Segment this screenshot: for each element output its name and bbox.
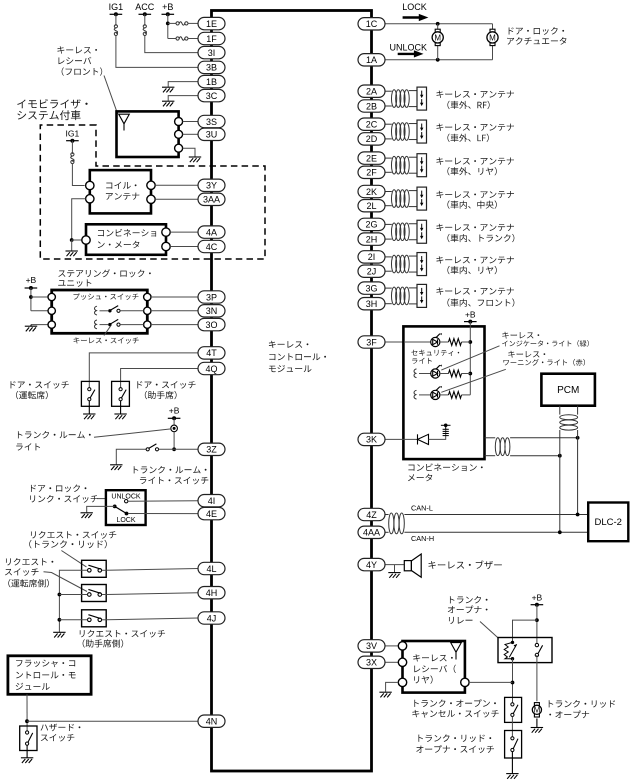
label combination meter L line2 — [98, 241, 140, 249]
label immobilizer line2 — [17, 110, 80, 120]
svg-text:4J: 4J — [207, 613, 217, 623]
connector pin 3P — [198, 291, 225, 303]
wire to terminal 1 — [31, 296, 48, 298]
connector pin 3H — [358, 298, 385, 310]
fuse IG1 — [114, 25, 117, 36]
junction motor1 top — [436, 22, 440, 26]
wire to security LED — [404, 341, 431, 343]
hazard switch box — [20, 726, 37, 751]
request switch contact 1 — [88, 565, 102, 572]
junction meter/PCM CAN-H — [558, 454, 562, 458]
trunk lid opener motor — [532, 703, 541, 717]
connector pin 4AA — [358, 526, 385, 538]
hook row2 — [95, 306, 97, 315]
resistor warning — [449, 392, 462, 399]
connector pin 2B — [358, 100, 385, 112]
wire hook to switch row3 — [100, 324, 109, 326]
wire to switch 2 — [59, 594, 87, 596]
wire to indicator LED — [419, 373, 431, 375]
wire motor1 branch — [437, 24, 439, 60]
leader warning light — [441, 369, 506, 392]
wire to fuse 1E — [168, 22, 176, 24]
connector pin 2J — [358, 265, 385, 277]
svg-text:4T: 4T — [206, 348, 217, 358]
ground buzzer — [388, 573, 400, 578]
steering terminal right 1 — [144, 293, 151, 300]
keyless antenna RF — [385, 87, 427, 110]
fuse IG1 immobilizer — [71, 153, 74, 164]
steering terminal left 3 — [48, 321, 55, 328]
wire to warning LED — [419, 394, 431, 396]
twisted pair from meter — [485, 438, 578, 456]
meter coil symbol — [441, 424, 451, 436]
connector pin 4I — [198, 495, 225, 507]
wire switch row2 to terminal — [120, 310, 144, 312]
fuse to 1F — [176, 37, 188, 40]
receiver rear terminal 1 — [398, 642, 406, 650]
wire pin 3K to diode — [385, 438, 418, 440]
svg-text:+B: +B — [26, 275, 37, 285]
label hazard switch line1 — [41, 724, 81, 732]
svg-text:4Y: 4Y — [366, 560, 377, 570]
label cancel switch line2 — [412, 710, 498, 718]
wire IG1 down to fuse — [115, 14, 117, 25]
wire +B to bulb — [173, 418, 175, 425]
svg-text:DLC-2: DLC-2 — [594, 517, 621, 528]
stem buzzer ground — [394, 565, 396, 573]
label antenna LF line2 — [447, 134, 488, 142]
keyless switch row3 — [108, 319, 120, 326]
wire pin 3F to meter — [385, 341, 404, 343]
connector pin 1B — [198, 75, 225, 87]
svg-text:2F: 2F — [366, 168, 377, 178]
connector pin 2A — [358, 85, 385, 97]
ground 1B — [162, 87, 174, 92]
connector pin 4C — [198, 240, 225, 252]
connector pin 3F — [358, 336, 385, 348]
svg-text:3S: 3S — [206, 117, 217, 127]
label keyless buzzer — [429, 560, 502, 569]
connector pin 3S — [198, 115, 225, 127]
svg-text:LOCK: LOCK — [402, 2, 427, 12]
label door switch driver line1 — [11, 381, 69, 389]
wire inside switch 1 — [102, 569, 106, 571]
wire pin 1B to ground — [168, 82, 198, 87]
connector pin 3O — [198, 318, 225, 330]
wire to terminal 2 — [31, 310, 48, 312]
svg-text:3C: 3C — [206, 91, 218, 101]
ACC terminal — [139, 12, 152, 16]
svg-text:2K: 2K — [366, 187, 377, 197]
connector pin 3Z — [198, 443, 225, 455]
keyless antenna rear-in — [385, 253, 427, 276]
connector pin 2E — [358, 152, 385, 164]
svg-text:2E: 2E — [366, 153, 377, 163]
label door lock actuator line2 — [507, 37, 566, 45]
label keyless receiver front line3 — [62, 67, 103, 75]
wire diode to coil — [429, 429, 446, 440]
connector pin 1E — [198, 17, 225, 29]
svg-text:3H: 3H — [366, 299, 378, 309]
keyless buzzer speaker — [404, 554, 421, 577]
wire ACC down to fuse — [144, 14, 146, 25]
door switch driver box — [81, 381, 99, 406]
junction rung1 — [468, 340, 472, 344]
wire motor2 branch — [492, 24, 494, 60]
trunk room light bulb — [171, 425, 178, 432]
wire +B into meter — [469, 322, 471, 395]
svg-text:M: M — [489, 33, 496, 42]
label module line2 — [269, 353, 326, 360]
label keyless receiver front line2 — [58, 57, 91, 64]
relay coil — [504, 641, 517, 661]
wire pin 3V to receiver — [385, 645, 398, 647]
connector pin 3Y — [198, 179, 225, 191]
svg-text:3AA: 3AA — [203, 195, 220, 205]
svg-text:PCM: PCM — [557, 385, 579, 396]
label cancel switch line1 — [414, 699, 496, 707]
label antenna trunk-in line1 — [436, 224, 514, 231]
svg-text:1B: 1B — [206, 77, 217, 87]
trunk opener relay box — [498, 638, 552, 663]
combination meter left box — [86, 224, 166, 255]
svg-text:4H: 4H — [206, 588, 218, 598]
connector pin 2L — [358, 200, 385, 212]
svg-text:M: M — [534, 706, 541, 715]
trunk lid opener switch box — [505, 731, 522, 759]
wire to pin 3P — [151, 296, 198, 298]
wire fuse to pin 1E — [188, 22, 198, 24]
svg-text:+B: +B — [169, 406, 180, 416]
label security light line1 — [411, 350, 459, 356]
label request switch driver line3 — [8, 579, 49, 587]
label receiver rear line3 — [414, 675, 432, 683]
svg-text:CAN-H: CAN-H — [411, 534, 434, 543]
svg-text:4A: 4A — [206, 227, 217, 237]
label receiver rear line1 — [413, 654, 453, 661]
svg-text:4N: 4N — [206, 717, 218, 727]
label combination meter R line2 — [408, 474, 432, 482]
svg-text:4Q: 4Q — [205, 364, 217, 374]
label trunk room light line1 — [18, 431, 91, 438]
connector pin 4T — [198, 347, 225, 359]
svg-text:3K: 3K — [366, 435, 377, 445]
coil antenna terminal right bottom — [147, 195, 155, 203]
label combination meter L line1 — [98, 229, 156, 237]
wire pin 3X to receiver — [385, 661, 398, 663]
svg-text:2G: 2G — [365, 220, 377, 230]
LOCK arrow — [403, 14, 429, 21]
junction +B relay coil — [535, 618, 539, 622]
label immobilizer line1 — [17, 99, 87, 109]
door switch passenger contact — [119, 388, 126, 401]
label indicator line2 — [502, 340, 589, 347]
resistor security light — [449, 339, 462, 346]
wire coil antenna to pin 3AA — [155, 198, 198, 200]
label antenna center-in line1 — [436, 191, 514, 198]
svg-text:3O: 3O — [205, 320, 217, 330]
label opener switch line1 — [418, 734, 491, 742]
wire common to ground — [87, 506, 115, 512]
flasher control module box — [8, 656, 91, 695]
connector pin 3V — [358, 640, 385, 652]
junction +B/1E — [166, 22, 170, 26]
connector pin 3I — [198, 46, 225, 58]
combination meter right terminal 2 — [162, 242, 170, 250]
fuse ACC — [143, 25, 146, 36]
svg-text:1F: 1F — [206, 34, 217, 44]
wire LED2 to resistor — [440, 373, 449, 375]
trunk open cancel switch box — [505, 697, 522, 722]
UNLOCK arrow — [398, 50, 424, 57]
label opener switch line2 — [416, 745, 494, 753]
leader to receiver front — [104, 76, 118, 115]
label steering lock line1 — [58, 269, 150, 277]
wire switch row3 to terminal — [120, 324, 144, 326]
label security light line2 — [412, 358, 432, 364]
label request switch trunk line2 — [29, 540, 106, 549]
keyless antenna LF — [385, 120, 427, 143]
wire junction to combination meter — [72, 239, 82, 241]
connector pin 4Y — [358, 558, 385, 570]
keyless antenna rear-out — [385, 154, 427, 177]
wire ACC to pin 3I — [145, 36, 198, 53]
wire LED to resistor — [440, 341, 449, 343]
wire ground to terminal 3 — [31, 324, 48, 326]
junction +B steering — [29, 295, 33, 299]
wire switch to pin 4H — [106, 593, 198, 595]
wire hook to switch row2 — [100, 310, 109, 312]
wire to pin 3O — [151, 324, 198, 326]
wire inside switch 3 — [102, 619, 106, 621]
svg-text:1A: 1A — [366, 55, 377, 65]
ground door switch passenger — [114, 401, 126, 419]
leader keyless switch — [104, 326, 111, 336]
svg-text:+B: +B — [162, 2, 173, 12]
junction CAN-L — [576, 513, 580, 517]
wire pin 1A unlock feed — [385, 59, 493, 61]
label trunk lid opener line1 — [549, 700, 615, 708]
wire receiver rear to ground — [386, 682, 399, 691]
leader trunk room light — [94, 429, 171, 437]
wire pin 3C to ground — [168, 96, 198, 101]
label door lock link line1 — [31, 484, 87, 492]
diode 3K — [418, 434, 429, 444]
ground trunk lid opener — [531, 719, 543, 733]
wire relay switch to opener motor — [536, 655, 538, 701]
coil antenna terminal left top — [86, 181, 94, 189]
ground steering lock — [25, 325, 37, 332]
connector pin 4N — [198, 715, 225, 727]
junction bulb/switch — [172, 447, 176, 451]
+B terminal meter — [464, 320, 477, 324]
label trunk opener relay line2 — [448, 606, 488, 614]
label request switch passenger line2 — [83, 639, 124, 647]
resistor indicator — [449, 370, 462, 377]
wire UNLOCK to pin 4I — [128, 500, 198, 503]
connector pin 2F — [358, 166, 385, 178]
svg-text:IG1: IG1 — [109, 2, 124, 12]
junction request 3 — [58, 618, 62, 622]
ground trunk switches — [506, 752, 518, 779]
junction coil/meter ground — [70, 238, 74, 242]
label request switch driver line2 — [5, 568, 39, 576]
label coil antenna line2 — [106, 193, 139, 200]
ground coil antenna — [66, 251, 78, 256]
junction meter/PCM CAN-L — [576, 436, 580, 440]
junction receiver/relay — [511, 681, 515, 685]
connector pin 3C — [198, 89, 225, 101]
ground door lock link — [81, 513, 93, 518]
connector pin 3X — [358, 656, 385, 668]
junction request 2 — [58, 593, 62, 597]
svg-text:ACC: ACC — [135, 2, 155, 12]
wire to fuse 1F — [168, 38, 176, 40]
wire IG1 down — [71, 141, 73, 154]
svg-text:2L: 2L — [366, 201, 376, 211]
connector pin 4H — [198, 587, 225, 599]
label warning line2 — [503, 359, 585, 366]
door lock link switch box — [106, 490, 146, 525]
connector pin 2I — [358, 251, 385, 263]
svg-text:+B: +B — [465, 310, 476, 320]
steering terminal left 2 — [48, 307, 55, 314]
connector pin 2H — [358, 233, 385, 245]
svg-text:4L: 4L — [206, 564, 216, 574]
connector pin 4L — [198, 562, 225, 574]
wire resistor2 to +B rail — [462, 373, 471, 375]
svg-text:4C: 4C — [206, 242, 218, 252]
coil antenna terminal right top — [147, 181, 155, 189]
svg-text:2I: 2I — [368, 252, 376, 262]
steering terminal right 3 — [144, 321, 151, 328]
receiver front terminal 2 — [175, 130, 183, 138]
request switch box 3 — [82, 610, 107, 627]
label antenna rear-in line1 — [436, 256, 514, 263]
steering lock unit box — [52, 290, 148, 333]
connector pin 4Z — [358, 508, 385, 520]
wire +B down — [167, 14, 169, 38]
connector pin 3AA — [198, 193, 225, 205]
wire receiver terminal 3 to ground — [183, 148, 195, 156]
ground receiver front — [189, 157, 201, 162]
connector pin 3G — [358, 282, 385, 294]
junction CAN-H — [558, 530, 562, 534]
receiver front terminal 1 — [175, 118, 183, 126]
connector pin 4E — [198, 507, 225, 519]
door switch driver contact — [88, 388, 95, 401]
svg-text:UNLOCK: UNLOCK — [390, 42, 428, 52]
wire cancel to opener switch — [511, 717, 513, 737]
label trunk opener relay line1 — [450, 596, 488, 603]
coil antenna box — [90, 170, 151, 213]
wire switch to pin 3Z — [159, 448, 198, 450]
request switch contact 2 — [88, 589, 102, 596]
label door lock actuator line1 — [509, 27, 565, 35]
+B terminal trunk room — [168, 416, 181, 420]
wire pin 4T to door switch driver — [89, 353, 198, 388]
svg-text:2J: 2J — [367, 267, 377, 277]
svg-text:3Y: 3Y — [206, 181, 217, 191]
svg-text:4I: 4I — [208, 496, 216, 506]
hook row3 — [95, 320, 97, 329]
label antenna rear-out line2 — [447, 167, 496, 175]
svg-text:1C: 1C — [366, 19, 378, 29]
wire relay coil down — [512, 659, 514, 703]
label request switch passenger line1 — [80, 630, 165, 638]
svg-text:3U: 3U — [206, 130, 218, 140]
combination meter right terminal 1 — [162, 228, 170, 236]
svg-text:2A: 2A — [366, 87, 377, 97]
svg-text:4Z: 4Z — [366, 510, 377, 520]
connector pin 1C — [358, 18, 385, 30]
label flasher line2 — [16, 671, 76, 678]
svg-text:3N: 3N — [206, 306, 218, 316]
door lock actuator motor 1 — [432, 29, 443, 45]
keyless receiver front box — [117, 111, 179, 157]
wire switch to pin 4J — [106, 618, 198, 620]
wire receiver to pin 3S — [183, 121, 198, 123]
receiver front terminal 3 — [175, 144, 183, 152]
connector pin 2C — [358, 118, 385, 130]
keyless antenna trunk-in — [385, 220, 427, 243]
label trunk room light line2 — [16, 443, 40, 450]
wire inside switch 2 — [102, 594, 106, 596]
wire meter to pin 4C — [170, 246, 198, 248]
trunk room light switch — [146, 444, 159, 451]
label antenna front-in line2 — [447, 298, 514, 306]
wire LOCK to pin 4E — [128, 513, 198, 515]
stem to ground — [71, 240, 73, 251]
door lock actuator motor 2 — [487, 29, 498, 45]
steering terminal left 1 — [48, 293, 55, 300]
svg-text:3B: 3B — [206, 63, 217, 73]
antenna symbol receiver front — [119, 114, 130, 130]
fuse to 1E — [176, 22, 188, 25]
receiver rear terminal out — [461, 678, 469, 686]
ground request switches — [53, 632, 65, 637]
label antenna RF line1 — [436, 90, 514, 97]
connector pin 3K — [358, 433, 385, 445]
connector pin 1A — [358, 54, 385, 66]
ground hazard switch — [21, 745, 33, 763]
PCM box — [541, 374, 595, 406]
label trunk room switch line2 — [140, 477, 208, 485]
label door switch driver line2 — [16, 391, 48, 399]
wire IG1 to coil antenna — [72, 164, 84, 186]
label module line3 — [269, 365, 312, 372]
wire coil antenna to junction — [72, 199, 86, 240]
label warning line1 — [508, 351, 545, 358]
wire coil antenna to pin 3Y — [155, 184, 198, 186]
request switch contact 3 — [88, 615, 102, 622]
label antenna rear-out line1 — [436, 157, 514, 164]
wire to relay coil — [513, 620, 537, 642]
label request switch trunk line1 — [31, 531, 116, 539]
wire LED3 to resistor — [440, 394, 449, 396]
wire pin 4Q to door switch passenger — [121, 369, 198, 388]
keyless switch row2 — [108, 306, 120, 313]
+B terminal relay — [531, 603, 544, 607]
svg-text:3F: 3F — [366, 337, 377, 347]
label coil antenna line1 — [106, 182, 136, 189]
svg-text:3Z: 3Z — [206, 445, 217, 455]
wire meter to pin 4A — [170, 231, 198, 233]
wire +B to relay switch — [536, 605, 538, 645]
connector pin 4A — [198, 226, 225, 238]
junction 4N — [25, 719, 29, 723]
svg-text:LOCK: LOCK — [116, 517, 135, 524]
